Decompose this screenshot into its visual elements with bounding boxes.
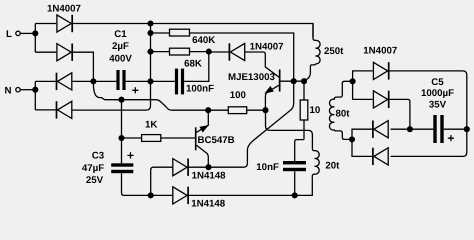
- plus sign C5: [448, 135, 454, 141]
- node dot top rail: [147, 20, 153, 26]
- node dot output rail: [464, 126, 470, 132]
- node dot bridge mid: [90, 78, 96, 84]
- diode D9 1N4007: [373, 121, 388, 138]
- svg-text:80t: 80t: [336, 109, 351, 120]
- diode D4 1N4007: [57, 101, 72, 118]
- node dot 1K: [118, 135, 124, 141]
- diode D5 1N4148: [173, 159, 188, 176]
- capacitor C1 2uF 400V: [116, 70, 125, 90]
- inductor feedback 20t: [312, 149, 319, 177]
- svg-text:C5: C5: [431, 77, 444, 88]
- wire emitter node to 20t top: [266, 110, 313, 148]
- svg-text:L: L: [6, 29, 12, 40]
- svg-text:C1: C1: [114, 29, 127, 40]
- wire D9 anode to C5: [391, 128, 434, 130]
- svg-text:100: 100: [230, 90, 246, 101]
- terminal L: [16, 31, 20, 35]
- svg-text:25V: 25V: [86, 175, 104, 186]
- svg-text:1K: 1K: [145, 119, 157, 130]
- node dot 640K: [147, 30, 153, 36]
- wire jog to 10nF top: [295, 140, 304, 161]
- wire C3 node to 100R jog: [122, 100, 209, 111]
- node dot D8 D9: [407, 126, 413, 132]
- wire DC node down to D4 anode: [72, 81, 150, 110]
- node dot base 640K: [291, 78, 297, 84]
- wire mid node curve down to C3 node: [93, 84, 121, 100]
- svg-text:10: 10: [310, 105, 321, 116]
- node dot 10nF ground: [292, 192, 298, 198]
- node dot snubber: [206, 49, 212, 55]
- wire 10R top lead: [303, 81, 305, 100]
- node dot clamp: [205, 164, 211, 170]
- svg-text:68K: 68K: [184, 59, 202, 70]
- wire L lead: [20, 32, 35, 34]
- wire D7 cathode to output plus rail: [389, 71, 467, 156]
- wire C1 plus to DC node: [126, 80, 175, 82]
- wire D5 cathode to clamp node: [189, 166, 209, 168]
- node dot ground rail: [148, 192, 154, 198]
- wire secondary top to D8: [353, 81, 373, 99]
- wire C5 to output rail: [444, 128, 467, 130]
- wire D2 anode: [35, 51, 56, 53]
- svg-text:1N4007: 1N4007: [250, 42, 284, 53]
- wire MJE emitter lead down: [265, 85, 279, 110]
- wire 1K left lead: [122, 137, 142, 139]
- svg-text:C3: C3: [92, 151, 105, 162]
- wire 10nF bottom lead: [294, 171, 296, 195]
- wire secondary bottom to D9: [352, 129, 373, 139]
- svg-text:1000µF: 1000µF: [421, 88, 454, 99]
- node dot MJE emitter: [262, 107, 268, 113]
- svg-text:35V: 35V: [429, 99, 447, 110]
- svg-text:MJE13003: MJE13003: [228, 72, 275, 83]
- svg-text:250t: 250t: [324, 46, 344, 57]
- svg-text:640K: 640K: [192, 35, 215, 46]
- svg-text:10nF: 10nF: [256, 162, 279, 173]
- wire 640K right lead to base node: [190, 33, 294, 81]
- svg-text:100nF: 100nF: [186, 84, 214, 95]
- wire secondary bottom to D10: [352, 139, 373, 156]
- wire 68K left lead: [151, 51, 170, 53]
- diode D2 1N4007: [57, 44, 72, 61]
- node dot DC C1: [147, 78, 153, 84]
- wire D3 cathode: [35, 80, 56, 82]
- node dot minus rail top: [118, 97, 124, 103]
- svg-text:47µF: 47µF: [82, 163, 104, 174]
- node dot 100R BC emitter: [205, 107, 211, 113]
- wire C3 bottom to ground rail: [122, 173, 151, 195]
- inductor secondary 80t: [329, 81, 352, 139]
- resistor R 640K: [170, 29, 190, 36]
- wire ground rail left of D6: [151, 194, 173, 196]
- wire D4 cathode: [35, 109, 56, 111]
- wire 1K right lead to BC547 base: [161, 137, 195, 139]
- node dot secondary bottom: [349, 136, 355, 142]
- capacitor C4 10nF: [283, 161, 306, 171]
- svg-text:1N4148: 1N4148: [191, 198, 226, 209]
- wire 100nF right up to snubber node: [184, 52, 209, 82]
- wire ground rail right of D6 to 20t bottom: [189, 176, 313, 195]
- diode D3 1N4007: [57, 73, 72, 90]
- wire L node vertical: [34, 24, 36, 53]
- resistor R 10 vertical: [300, 100, 308, 120]
- svg-text:20t: 20t: [325, 160, 340, 171]
- terminal N: [16, 88, 20, 92]
- capacitor C2 100nF: [175, 69, 184, 95]
- wire 100R left lead: [208, 109, 228, 111]
- inductor primary 250t: [313, 24, 320, 64]
- svg-text:BC547B: BC547B: [198, 135, 235, 146]
- wire 100R right lead: [247, 109, 266, 111]
- plus sign C3: [127, 152, 133, 158]
- node dot 68K: [147, 49, 153, 55]
- wire snubber anode to MJE collector: [245, 52, 279, 77]
- diode D10 1N4007: [373, 148, 388, 165]
- wire BC547 emitter lead up: [197, 110, 209, 132]
- node dot N: [32, 87, 38, 93]
- wire D3 anode to C1: [72, 80, 116, 82]
- wire 68K right lead to snubber diode: [190, 51, 230, 53]
- wire top rail D1 cathode to primary: [72, 24, 313, 38]
- node dot L: [32, 30, 38, 36]
- wire D1 anode: [35, 23, 56, 25]
- diode D1 1N4007: [57, 15, 72, 32]
- capacitor C3 47uF 25V: [111, 163, 133, 173]
- wire 640K left lead: [151, 32, 170, 34]
- wire C3 node vertical: [121, 100, 123, 164]
- wire D5 anode branch: [151, 167, 173, 195]
- svg-text:2µF: 2µF: [112, 41, 129, 52]
- wire 10R bottom lead: [303, 120, 305, 140]
- svg-text:1N4007: 1N4007: [47, 4, 81, 15]
- wire secondary top to D7: [353, 71, 373, 81]
- wire MJE base: [281, 80, 305, 82]
- svg-text:1N4007: 1N4007: [363, 46, 397, 57]
- resistor R 1K: [142, 135, 161, 142]
- wire N lead: [20, 89, 35, 91]
- transistor Q1 MJE13003: [266, 70, 281, 93]
- svg-text:N: N: [5, 85, 12, 96]
- diode D8 1N4007: [373, 91, 388, 108]
- wire DC plus vertical: [150, 23, 152, 81]
- wire N node vertical: [34, 81, 36, 110]
- plus sign C1: [132, 87, 138, 93]
- wire primary bottom to base node: [304, 64, 315, 81]
- svg-text:1N4148: 1N4148: [192, 170, 227, 181]
- resistor R 68K: [170, 48, 190, 55]
- wire D8 cathode down to output minus node: [389, 99, 410, 129]
- capacitor C5 1000uF 35V: [433, 115, 443, 143]
- transistor Q2 BC547B: [195, 126, 208, 151]
- diode snubber 1N4007: [229, 43, 244, 60]
- diode D7 1N4007: [373, 62, 388, 79]
- wire base feedback diagonal: [209, 81, 294, 167]
- diode D6 1N4148: [173, 187, 188, 204]
- node dot base coil: [301, 78, 307, 84]
- svg-text:400V: 400V: [109, 54, 132, 65]
- resistor R 100: [228, 107, 246, 114]
- wire BC547 collector lead down: [197, 145, 209, 167]
- wire D2 cathode down to mid node: [72, 52, 93, 81]
- node dot secondary top: [350, 78, 356, 84]
